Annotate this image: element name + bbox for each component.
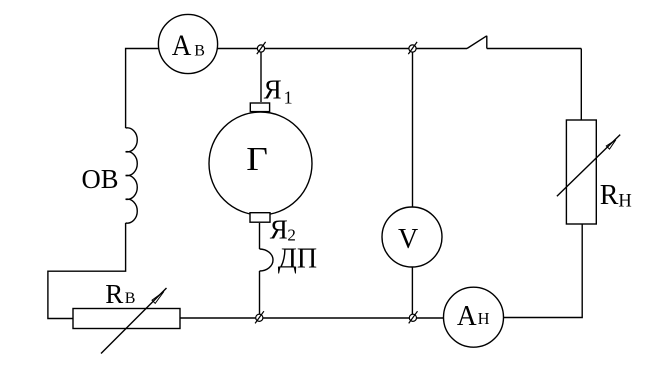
svg-text:Я: Я [270, 215, 288, 245]
svg-text:2: 2 [287, 225, 296, 244]
svg-text:R: R [600, 180, 619, 211]
svg-text:В: В [125, 290, 136, 307]
svg-text:А: А [457, 300, 477, 332]
svg-text:А: А [172, 29, 192, 62]
svg-text:Н: Н [618, 192, 631, 212]
svg-text:Я: Я [264, 75, 282, 105]
svg-text:ДП: ДП [278, 243, 317, 274]
svg-text:Н: Н [478, 309, 490, 328]
svg-text:ОВ: ОВ [82, 163, 119, 194]
svg-text:V: V [398, 224, 418, 255]
svg-text:Г: Г [246, 141, 268, 178]
svg-text:1: 1 [284, 87, 293, 107]
svg-text:В: В [194, 43, 205, 60]
svg-text:R: R [105, 279, 123, 309]
